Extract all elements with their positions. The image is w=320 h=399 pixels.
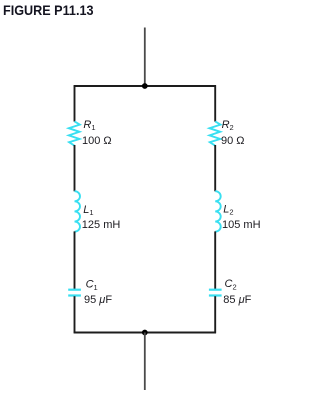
wire left upper (top to R1) — [74, 85, 76, 121]
svg-text:90 Ω: 90 Ω — [221, 135, 245, 147]
svg-text:R2: R2 — [222, 119, 234, 132]
svg-text:125 mH: 125 mH — [82, 219, 121, 231]
wire left middle (R1 to L1) — [74, 145, 76, 191]
wire bottom horizontal — [74, 332, 216, 334]
label L2 — [223, 203, 233, 216]
capacitor C1 — [68, 290, 81, 296]
wire right middle (R2 to L2) — [214, 145, 216, 191]
inductor L1 — [75, 191, 81, 231]
node top junction — [142, 83, 148, 89]
resistor R2 — [210, 121, 221, 145]
svg-text:95 μF: 95 μF — [84, 294, 112, 306]
label L1 — [83, 204, 93, 217]
label C1 — [86, 279, 98, 292]
wire top stub — [144, 28, 146, 87]
svg-text:FIGURE P11.13: FIGURE P11.13 — [3, 3, 94, 18]
capacitor C2 — [209, 290, 222, 296]
wire top horizontal — [74, 85, 216, 87]
wire bottom stub — [144, 333, 146, 391]
svg-text:C2: C2 — [225, 278, 237, 291]
node bottom junction — [142, 330, 148, 336]
svg-text:L2: L2 — [223, 203, 233, 216]
svg-text:105 mH: 105 mH — [222, 219, 261, 231]
svg-text:C1: C1 — [86, 279, 98, 292]
wire left lower (L1 to C1) — [74, 231, 76, 289]
wire right bottom (C2 to bottom) — [214, 296, 216, 333]
label R2 — [222, 119, 234, 132]
inductor L2 — [215, 191, 221, 231]
svg-text:L1: L1 — [83, 204, 93, 217]
wire right upper (top to R2) — [214, 85, 216, 121]
wire right lower (L2 to C2) — [214, 231, 216, 289]
svg-text:85 μF: 85 μF — [223, 294, 251, 306]
label R1 — [83, 119, 95, 132]
svg-text:100 Ω: 100 Ω — [82, 135, 112, 147]
svg-text:R1: R1 — [83, 119, 95, 132]
label C2 — [225, 278, 237, 291]
resistor R1 — [69, 121, 80, 145]
wire left bottom (C1 to bottom) — [74, 296, 76, 333]
